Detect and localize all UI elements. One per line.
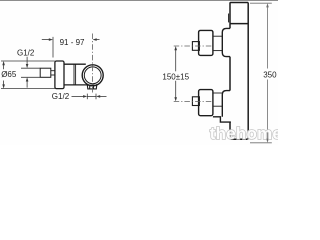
upper port centerline: [174, 45, 213, 47]
body joint lines: [74, 64, 76, 85]
svg-text:350: 350: [263, 70, 277, 79]
svg-text:G1/2: G1/2: [52, 92, 70, 101]
lower inlet nipple (front view): [192, 97, 199, 106]
inlet nipple G1/2 behind flange (side view): [40, 68, 51, 77]
lower port centerline: [174, 100, 213, 102]
bracket screw detail: [228, 14, 230, 23]
lower flange step piece: [213, 117, 231, 122]
vertical centerline of handle: [91, 34, 93, 93]
handle outer circle (side view): [82, 65, 103, 86]
svg-text:150±15: 150±15: [162, 72, 189, 81]
G1/2 leader arrows and extension lines: [21, 57, 40, 88]
outlet nut (side view): [87, 84, 97, 89]
Ø65 dimension arrows and extension lines: [1, 61, 55, 89]
svg-text:G1/2: G1/2: [17, 49, 35, 58]
valve body (side view): [64, 64, 89, 85]
upper neck lines: [213, 36, 222, 50]
upper inlet nipple (front view): [192, 42, 199, 51]
svg-text:91 - 97: 91 - 97: [60, 38, 85, 47]
handle inner circle: [84, 67, 101, 84]
svg-text:thehome: thehome: [210, 124, 278, 143]
nipple to flange connector pipe: [51, 71, 55, 75]
upper flange on bar: [222, 28, 230, 56]
lower housing: [199, 90, 213, 116]
shower bar (front view): [230, 3, 248, 140]
dimension 91-97 line with arrows: [42, 37, 100, 58]
outlet G1/2 dimension (arrows inward): [72, 94, 107, 100]
lower flange on bar: [222, 91, 230, 117]
lower neck lines: [213, 93, 222, 106]
dimension 150±15 vertical line with arrows: [174, 46, 177, 101]
svg-text:Ø65: Ø65: [1, 70, 17, 79]
wall flange Ø65 escutcheon (side view): [55, 61, 64, 89]
dimension 350 extension lines and arrows: [250, 3, 272, 143]
wall bracket at top of bar: [230, 3, 248, 24]
upper housing: [199, 30, 213, 55]
